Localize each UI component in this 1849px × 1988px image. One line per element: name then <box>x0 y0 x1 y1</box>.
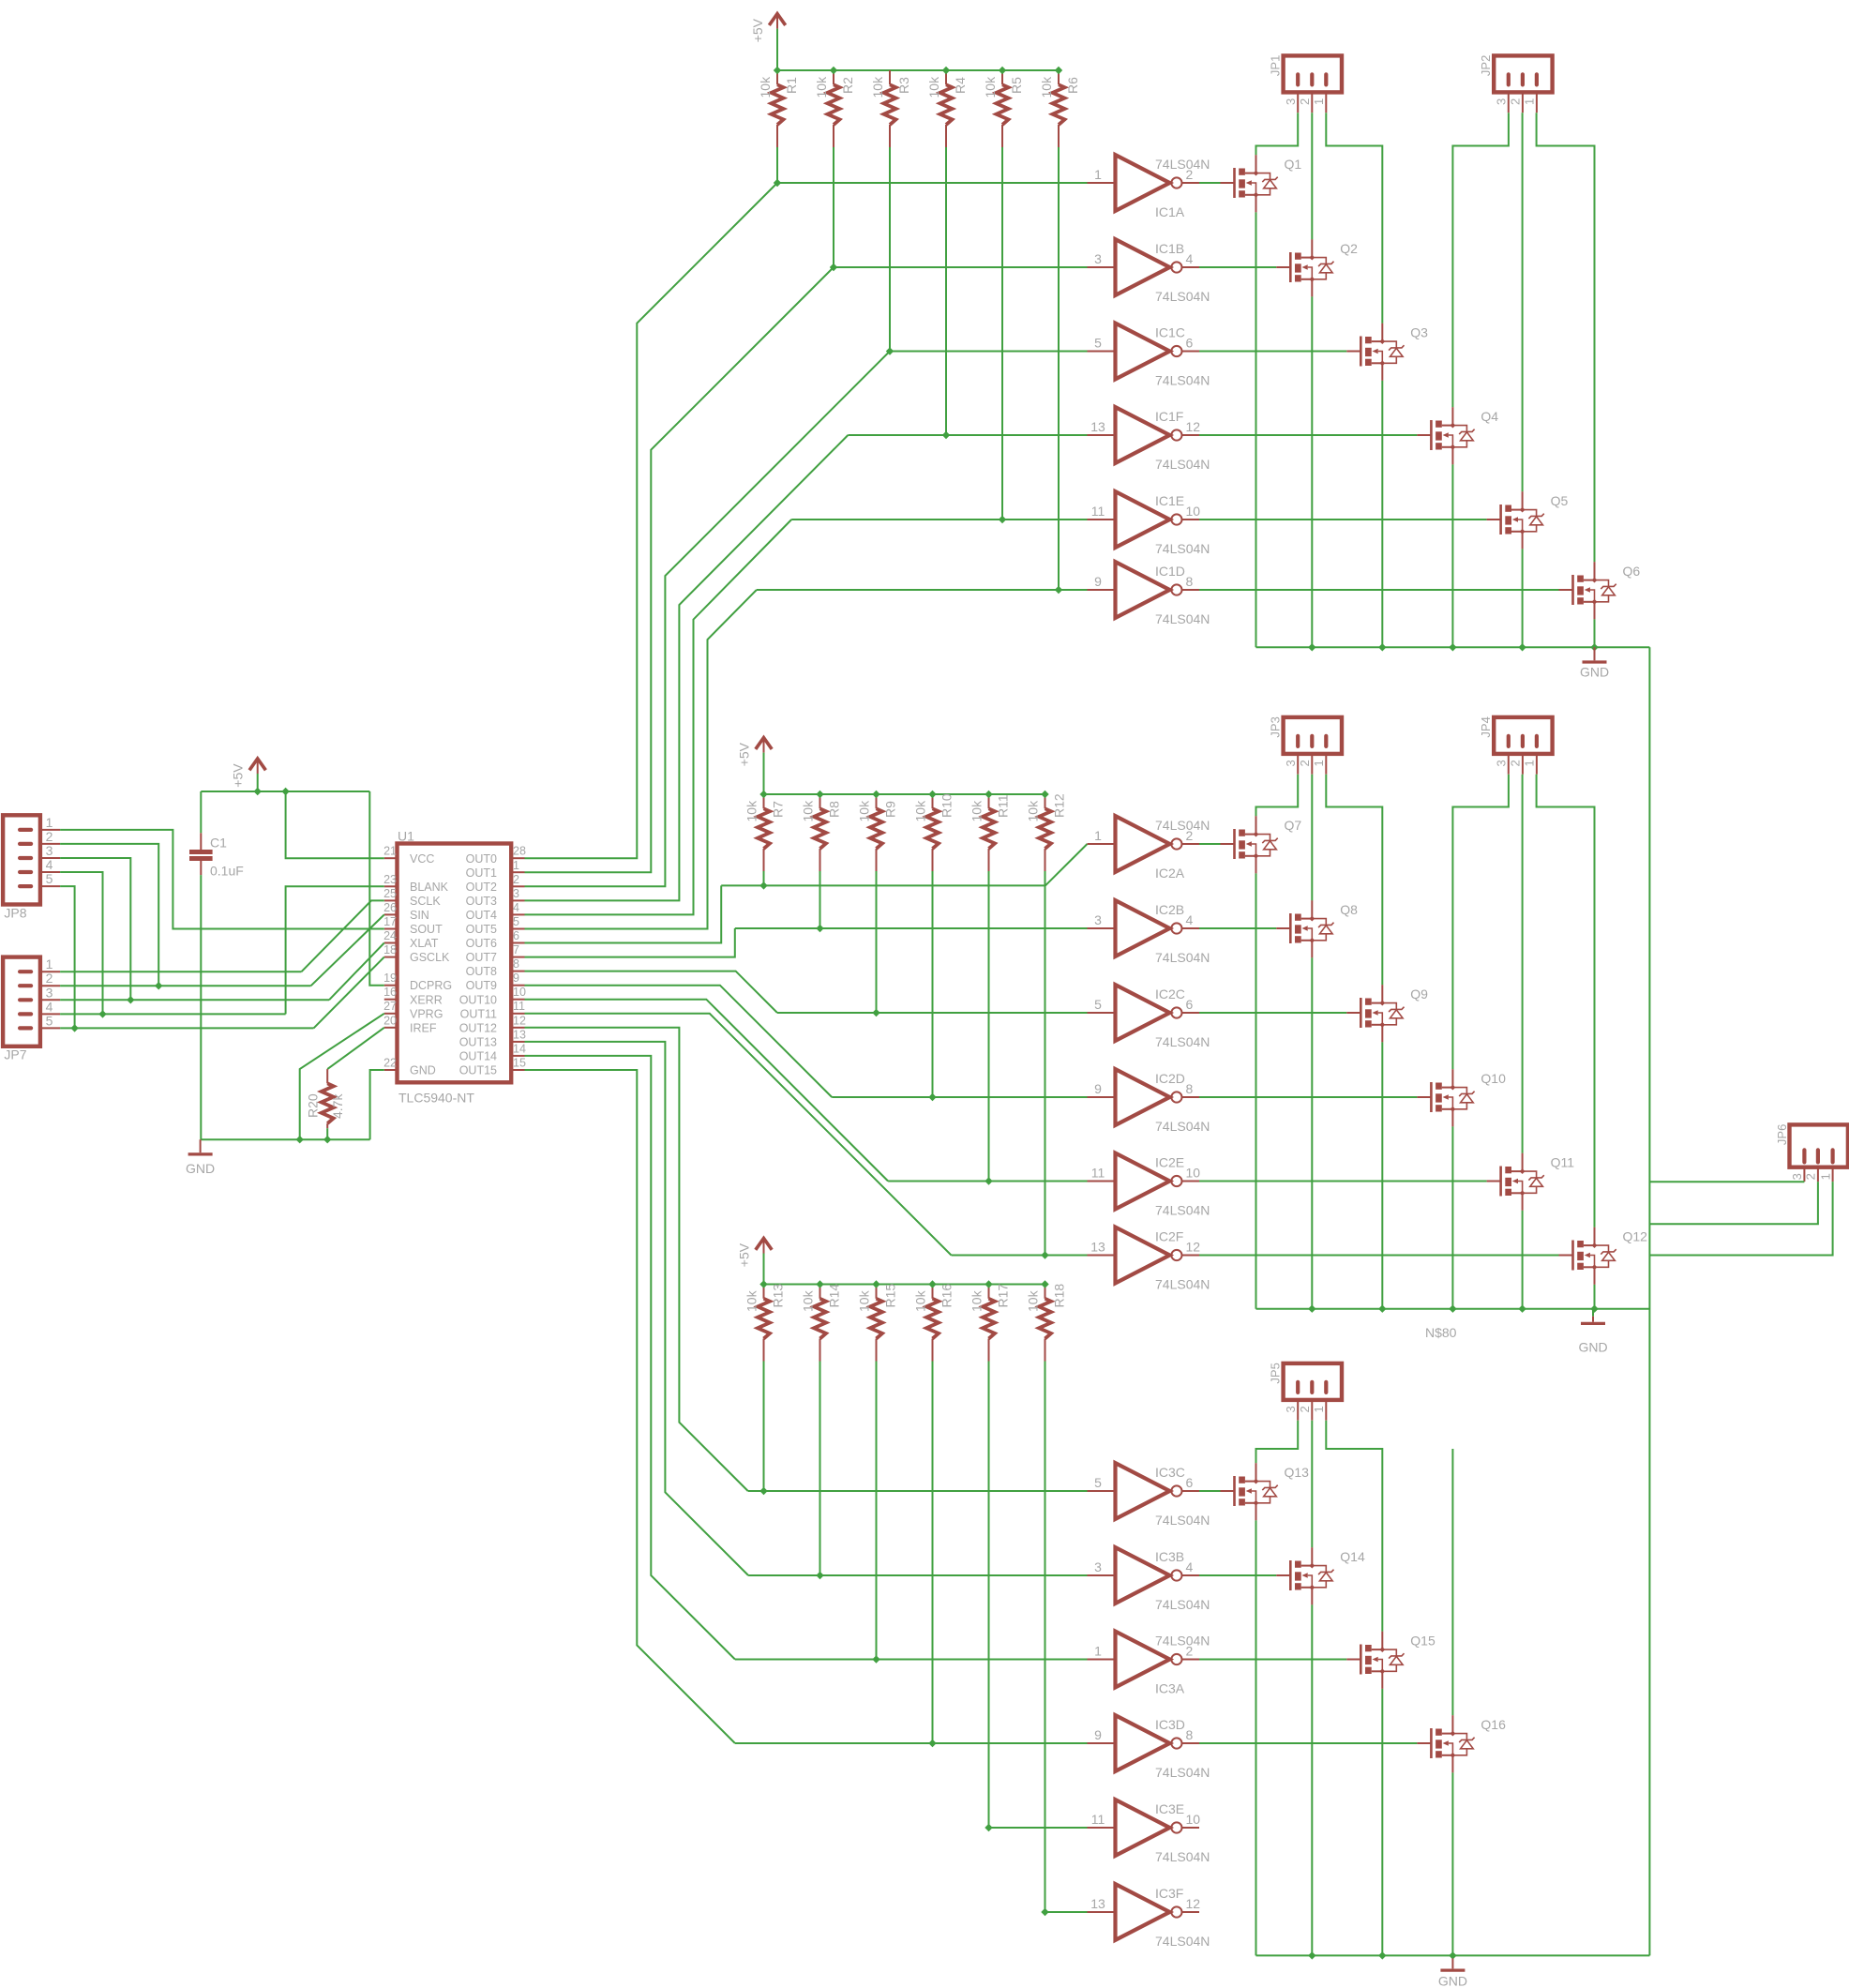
svg-text:Q10: Q10 <box>1481 1071 1506 1086</box>
wire R11 to inverter input row <box>988 871 990 1182</box>
svg-text:GND: GND <box>186 1161 215 1176</box>
wire +5V to DCPRG <box>369 791 384 986</box>
junction <box>1308 1951 1315 1959</box>
svg-text:74LS04N: 74LS04N <box>1155 1849 1210 1864</box>
svg-text:JP3: JP3 <box>1269 716 1283 737</box>
junction <box>759 881 767 889</box>
junction <box>816 925 823 932</box>
svg-text:6: 6 <box>1186 1475 1194 1490</box>
svg-text:3: 3 <box>1094 1559 1102 1574</box>
wire IC2B output to Q8 gate <box>1199 927 1276 929</box>
pin 19 DCPRG of U1 <box>384 985 398 986</box>
pin 9 OUT9 of U1 <box>511 985 524 986</box>
svg-text:74LS04N: 74LS04N <box>1155 1934 1210 1949</box>
wire OUT13 to IC3B <box>525 1042 749 1575</box>
svg-text:2: 2 <box>1298 760 1312 766</box>
wire IC1C output to Q3 gate <box>1199 351 1346 353</box>
wire JP6 pin 2 to GND rail <box>1649 1182 1818 1224</box>
svg-text:3: 3 <box>513 887 519 900</box>
wire XLAT diagonal <box>329 943 384 1001</box>
wire Q13 source to GND bus <box>1255 1520 1257 1955</box>
svg-text:74LS04N: 74LS04N <box>1155 1119 1210 1134</box>
svg-text:R11: R11 <box>996 794 1011 818</box>
wire JP8 pin 1 to SOUT <box>60 830 384 929</box>
svg-text:+5V: +5V <box>750 18 765 42</box>
svg-text:3: 3 <box>46 843 53 858</box>
junction <box>98 1010 106 1017</box>
svg-text:10k: 10k <box>870 76 885 98</box>
svg-text:10k: 10k <box>913 1289 928 1312</box>
svg-text:IC3B: IC3B <box>1155 1549 1184 1564</box>
svg-text:Q15: Q15 <box>1410 1634 1436 1649</box>
wire Q8 source to GND bus <box>1311 957 1313 1308</box>
wire to Q16 drain <box>1451 1449 1453 1715</box>
wire R10 to inverter input row <box>932 871 934 1097</box>
connector JP8 5-pin header <box>3 815 40 904</box>
connector JP5 3-pin header <box>1284 1363 1342 1400</box>
inverter IC2A 74LS04N <box>1088 843 1116 845</box>
pin 13 OUT13 of U1 <box>511 1041 524 1043</box>
svg-text:1: 1 <box>46 956 53 971</box>
svg-text:10: 10 <box>1186 1812 1201 1827</box>
svg-text:10k: 10k <box>744 800 759 822</box>
wire JP5 pin 2 to Q14 drain <box>1311 1421 1313 1547</box>
svg-text:7: 7 <box>513 943 519 956</box>
ground symbol GND <box>1594 647 1596 660</box>
wire IC3B input row <box>748 1574 1087 1576</box>
svg-text:IC1F: IC1F <box>1155 409 1183 424</box>
svg-text:OUT12: OUT12 <box>459 1021 497 1034</box>
wire IC3A output to Q15 gate <box>1199 1659 1346 1661</box>
svg-text:IC3E: IC3E <box>1155 1801 1184 1816</box>
wire JP2 pin 1 to Q6 drain <box>1537 113 1595 562</box>
transistor Q8 N-MOSFET <box>1276 927 1290 929</box>
wire JP7 pin 1 row (SCLK net) <box>60 971 301 972</box>
wire R2 to inverter input row <box>833 147 834 267</box>
svg-text:3: 3 <box>1790 1173 1804 1180</box>
svg-text:10k: 10k <box>1026 800 1041 822</box>
junction <box>1518 1305 1526 1313</box>
wire Q6 source to GND bus <box>1594 619 1596 647</box>
svg-text:OUT3: OUT3 <box>466 895 497 908</box>
svg-text:2: 2 <box>1804 1173 1818 1180</box>
svg-text:4.7k: 4.7k <box>330 1093 345 1119</box>
svg-text:3: 3 <box>1284 1406 1298 1412</box>
svg-text:JP4: JP4 <box>1479 716 1493 737</box>
+5V power symbol <box>769 14 785 25</box>
wire JP8 pin 5 to JP7 pin 5 row <box>60 886 75 1028</box>
transistor Q3 N-MOSFET <box>1346 351 1360 353</box>
wire OUT3 to IC1F <box>525 435 849 900</box>
wire IC3D input row <box>735 1742 1088 1744</box>
svg-text:5: 5 <box>1094 997 1102 1012</box>
junction <box>816 1572 823 1579</box>
resistor R2 10k <box>833 70 834 84</box>
junction <box>1449 1951 1456 1959</box>
pin 1 OUT1 of U1 <box>511 871 524 873</box>
svg-text:GND: GND <box>1578 1340 1607 1355</box>
wire R1 to inverter input row <box>776 147 778 183</box>
svg-text:3: 3 <box>1495 98 1509 105</box>
pin 6 OUT6 of U1 <box>511 942 524 944</box>
connector JP2 3-pin header <box>1494 55 1552 92</box>
svg-text:10k: 10k <box>970 800 985 822</box>
wire JP8 pin 3 to JP7 pin 3 row <box>60 858 130 1000</box>
junction <box>1308 643 1315 651</box>
svg-text:4: 4 <box>513 901 519 914</box>
ground symbol GND <box>1592 1309 1594 1317</box>
inverter IC3B 74LS04N <box>1088 1574 1116 1576</box>
junction <box>323 1136 331 1143</box>
svg-text:0.1uF: 0.1uF <box>210 864 244 879</box>
svg-text:2: 2 <box>46 829 53 844</box>
connector JP1 3-pin header <box>1284 55 1342 92</box>
wire IC2A input row with diagonal <box>721 844 1087 885</box>
junction <box>928 1739 936 1747</box>
svg-text:IC2B: IC2B <box>1155 902 1184 917</box>
svg-text:JP7: JP7 <box>4 1047 26 1062</box>
wire R6 to inverter input row <box>1058 147 1060 590</box>
svg-text:5: 5 <box>1094 1475 1102 1490</box>
wire IC1B output to Q2 gate <box>1199 266 1276 268</box>
svg-text:GND: GND <box>1580 664 1609 679</box>
pin 28 OUT0 of U1 <box>511 857 524 859</box>
wire IC1D output to Q6 gate <box>1199 589 1559 591</box>
wire JP7 pin 5 row (GSCLK net) <box>60 1027 313 1029</box>
junction <box>928 791 936 798</box>
resistor R10 10k <box>932 794 934 808</box>
resistor R15 10k <box>876 1285 878 1299</box>
svg-text:9: 9 <box>513 971 519 985</box>
inverter IC1C 74LS04N <box>1088 351 1116 353</box>
inverter IC2C 74LS04N <box>1088 1012 1116 1014</box>
svg-text:8: 8 <box>1186 1727 1194 1742</box>
wire Q5 source to GND bus <box>1522 549 1524 647</box>
svg-text:1: 1 <box>1094 167 1102 182</box>
wire IC2D input row <box>832 1096 1087 1098</box>
wire IC1A input row <box>777 182 1088 184</box>
junction <box>830 67 837 74</box>
wire IC1B input row <box>834 266 1088 268</box>
wire JP2 pin 2 to Q5 drain <box>1522 113 1524 491</box>
svg-text:1: 1 <box>513 859 519 872</box>
svg-text:OUT2: OUT2 <box>466 881 497 894</box>
svg-text:27: 27 <box>383 1000 397 1013</box>
svg-text:SIN: SIN <box>410 909 429 922</box>
+5V power symbol <box>756 1239 772 1250</box>
wire JP6 pin 1 to GND rail <box>1649 1182 1832 1255</box>
svg-text:11: 11 <box>1091 1166 1105 1181</box>
inverter IC3D 74LS04N <box>1088 1742 1116 1744</box>
svg-text:R7: R7 <box>771 801 786 818</box>
resistor R16 10k <box>932 1285 934 1299</box>
svg-text:IC2D: IC2D <box>1155 1071 1185 1086</box>
junction <box>1590 643 1598 651</box>
svg-text:IC1A: IC1A <box>1155 204 1185 219</box>
wire Q15 source to GND bus <box>1381 1689 1383 1955</box>
wire IC2E input row <box>888 1181 1087 1182</box>
wire bottom resistor bank +5V bus <box>764 1284 1045 1286</box>
pin 22 GND of U1 <box>384 1069 398 1071</box>
svg-text:10k: 10k <box>758 76 773 98</box>
pin 5 OUT5 of U1 <box>511 928 524 930</box>
transistor Q5 N-MOSFET <box>1487 519 1501 520</box>
wire IC3C input row <box>748 1490 1088 1492</box>
junction <box>759 1280 767 1288</box>
junction <box>759 791 767 798</box>
IC U1 TLC5940-NT body <box>398 844 512 1083</box>
junction <box>774 179 781 187</box>
svg-text:Q9: Q9 <box>1410 986 1428 1002</box>
wire IC2B input row <box>735 927 1088 929</box>
wire OUT15 to IC3D <box>525 1070 735 1743</box>
junction <box>999 67 1006 74</box>
wire Q14 source to GND bus <box>1311 1604 1313 1955</box>
junction <box>816 1280 823 1288</box>
wire Q10 source to GND bus <box>1451 1126 1453 1308</box>
pin 3 OUT3 of U1 <box>511 899 524 901</box>
svg-text:JP8: JP8 <box>4 905 26 920</box>
svg-text:OUT15: OUT15 <box>459 1064 497 1077</box>
svg-text:18: 18 <box>383 943 397 956</box>
svg-text:4: 4 <box>1186 912 1194 927</box>
svg-text:R2: R2 <box>840 77 855 94</box>
svg-text:10k: 10k <box>926 76 941 98</box>
svg-text:SOUT: SOUT <box>410 923 443 936</box>
svg-text:3: 3 <box>1495 760 1509 766</box>
junction <box>759 1487 767 1495</box>
wire JP3 pin 3 to Q7 drain <box>1256 775 1299 816</box>
svg-text:IC1D: IC1D <box>1155 564 1185 579</box>
wire IC1E input row <box>791 519 1087 520</box>
wire +5V to VCC <box>286 791 384 858</box>
junction <box>1041 1280 1048 1288</box>
junction <box>872 791 879 798</box>
wire C1 bottom lead to GND bus <box>200 875 202 1139</box>
wire SIN diagonal <box>311 914 384 986</box>
svg-text:10k: 10k <box>857 800 872 822</box>
svg-text:IC3F: IC3F <box>1155 1886 1183 1901</box>
wire JP7 pin 2 row (SIN net) <box>60 985 311 986</box>
svg-text:R3: R3 <box>896 77 911 94</box>
wire JP8 pin 2 to JP7 pin 2 row <box>60 844 158 986</box>
svg-text:10k: 10k <box>801 800 816 822</box>
svg-text:IREF: IREF <box>410 1021 437 1034</box>
wire OUT10 to IC2E <box>525 1000 889 1182</box>
wire IC2F input row <box>952 1255 1088 1257</box>
svg-text:Q13: Q13 <box>1285 1465 1310 1480</box>
svg-text:10k: 10k <box>1039 76 1054 98</box>
wire JP1 pin 3 to Q1 drain <box>1256 113 1299 155</box>
junction <box>872 1009 879 1017</box>
svg-text:20: 20 <box>383 1014 397 1027</box>
transistor Q14 N-MOSFET <box>1276 1574 1290 1576</box>
transistor Q4 N-MOSFET <box>1417 434 1431 436</box>
pin 8 OUT8 of U1 <box>511 971 524 972</box>
svg-text:5: 5 <box>46 1013 53 1028</box>
resistor R6 10k <box>1058 70 1060 84</box>
pin 4 OUT4 of U1 <box>511 913 524 915</box>
inverter IC3C 74LS04N <box>1088 1490 1116 1492</box>
junction <box>872 1280 879 1288</box>
svg-text:R8: R8 <box>827 801 842 818</box>
svg-text:12: 12 <box>1186 419 1201 434</box>
pin 25 SCLK of U1 <box>384 899 398 901</box>
resistor R7 10k <box>763 794 765 808</box>
inverter IC3F 74LS04N <box>1088 1911 1116 1913</box>
wire Q12 source to GND bus <box>1594 1285 1596 1309</box>
svg-text:10k: 10k <box>801 1289 816 1312</box>
svg-text:R17: R17 <box>996 1284 1011 1308</box>
resistor R5 10k <box>1001 70 1003 84</box>
wire Q7 source to GND bus <box>1255 873 1257 1308</box>
wire IC1D input row <box>757 589 1088 591</box>
wire R3 to inverter input row <box>889 147 891 352</box>
+5V power symbol <box>249 759 265 770</box>
svg-text:GND: GND <box>410 1064 436 1077</box>
junction <box>1308 1305 1315 1313</box>
svg-text:Q12: Q12 <box>1623 1229 1648 1244</box>
wire R9 to inverter input row <box>876 871 878 1013</box>
wire IC1F input row <box>848 434 1087 436</box>
inverter IC3E 74LS04N <box>1088 1827 1116 1829</box>
resistor R4 10k <box>945 70 947 84</box>
svg-text:IC3D: IC3D <box>1155 1717 1185 1732</box>
svg-text:OUT13: OUT13 <box>459 1036 497 1049</box>
wire Q3 source to GND bus <box>1381 381 1383 647</box>
svg-text:1: 1 <box>1312 760 1326 766</box>
wire OUT1 to IC1B <box>525 267 834 872</box>
junction <box>281 788 289 795</box>
wire JP1 pin 1 to Q3 drain <box>1326 113 1382 323</box>
svg-text:74LS04N: 74LS04N <box>1155 1513 1210 1528</box>
wire OUT9 to IC2D <box>525 986 833 1097</box>
wire JP4 pin 2 to Q11 drain <box>1522 775 1524 1153</box>
svg-text:74LS04N: 74LS04N <box>1155 950 1210 965</box>
wire R7 to inverter input row <box>763 871 765 885</box>
ground symbol GND <box>200 1139 202 1152</box>
svg-text:74LS04N: 74LS04N <box>1155 1034 1210 1049</box>
svg-text:9: 9 <box>1094 574 1102 589</box>
svg-text:4: 4 <box>46 999 53 1014</box>
wire R20 to GND bus <box>326 1128 328 1139</box>
svg-text:GSCLK: GSCLK <box>410 951 450 964</box>
inverter IC2B 74LS04N <box>1088 927 1116 929</box>
transistor Q11 N-MOSFET <box>1487 1181 1501 1182</box>
wire IC1A output to Q1 gate <box>1199 182 1221 184</box>
svg-text:R12: R12 <box>1052 793 1067 818</box>
svg-text:OUT11: OUT11 <box>460 1007 497 1020</box>
svg-text:5: 5 <box>46 871 53 886</box>
pin 21 VCC of U1 <box>384 857 398 859</box>
wire IC2C output to Q9 gate <box>1199 1012 1346 1014</box>
svg-text:OUT8: OUT8 <box>466 965 497 978</box>
wire JP8 pin 4 to JP7 pin 4 row <box>60 872 102 1014</box>
svg-text:74LS04N: 74LS04N <box>1155 157 1210 172</box>
svg-text:13: 13 <box>513 1028 526 1041</box>
svg-text:10: 10 <box>1186 504 1201 519</box>
wire IC1E output to Q5 gate <box>1199 519 1487 520</box>
svg-text:R20: R20 <box>306 1093 321 1118</box>
wire middle resistor bank +5V bus <box>764 793 1045 795</box>
junction <box>985 1177 992 1184</box>
wire JP7 pin 4 row (BLANK net) <box>60 1013 286 1015</box>
svg-text:OUT14: OUT14 <box>459 1050 497 1063</box>
inverter IC2D 74LS04N <box>1088 1096 1116 1098</box>
resistor R13 10k <box>763 1285 765 1299</box>
wire Q16 source to GND bus <box>1451 1772 1453 1955</box>
wire R13 to inverter input row <box>763 1362 765 1492</box>
svg-text:74LS04N: 74LS04N <box>1155 289 1210 304</box>
svg-text:74LS04N: 74LS04N <box>1155 611 1210 626</box>
wire JP3 pin 1 to Q9 drain <box>1326 775 1382 985</box>
svg-text:R13: R13 <box>771 1284 786 1308</box>
svg-text:14: 14 <box>513 1042 526 1055</box>
transistor Q6 N-MOSFET <box>1559 589 1573 591</box>
svg-text:IC1B: IC1B <box>1155 241 1184 256</box>
transistor Q2 N-MOSFET <box>1276 266 1290 268</box>
junction <box>296 1136 304 1143</box>
svg-text:11: 11 <box>1091 1812 1105 1827</box>
svg-text:10: 10 <box>513 986 526 999</box>
resistor R9 10k <box>876 794 878 808</box>
junction <box>872 1655 879 1663</box>
wire +5V stem <box>776 29 778 70</box>
svg-text:10: 10 <box>1186 1166 1201 1181</box>
wire R14 to inverter input row <box>819 1362 821 1576</box>
svg-text:5: 5 <box>1094 336 1102 351</box>
resistor R20 4.7k <box>326 1069 328 1083</box>
pin 12 OUT12 of U1 <box>511 1027 524 1029</box>
svg-text:1: 1 <box>1312 98 1326 105</box>
svg-text:JP5: JP5 <box>1269 1363 1283 1383</box>
svg-text:IC2C: IC2C <box>1155 986 1185 1002</box>
pin 26 SIN of U1 <box>384 913 398 915</box>
wire Q11 source to GND bus <box>1522 1211 1524 1309</box>
junction <box>942 431 950 439</box>
svg-text:R6: R6 <box>1065 77 1080 94</box>
svg-text:1: 1 <box>1094 828 1102 843</box>
pin 14 OUT14 of U1 <box>511 1055 524 1057</box>
pin 2 OUT2 of U1 <box>511 885 524 887</box>
svg-text:OUT10: OUT10 <box>459 993 497 1006</box>
pin 23 BLANK of U1 <box>384 885 398 887</box>
svg-text:24: 24 <box>383 929 397 942</box>
svg-text:IC2F: IC2F <box>1155 1229 1183 1244</box>
wire JP6 pin 3 to GND rail <box>1649 1181 1804 1182</box>
inverter IC3A 74LS04N <box>1088 1659 1116 1661</box>
svg-text:Q16: Q16 <box>1481 1717 1506 1732</box>
junction <box>985 1280 992 1288</box>
transistor Q10 N-MOSFET <box>1417 1096 1431 1098</box>
wire R5 to inverter input row <box>1001 147 1003 520</box>
wire IC3B output to Q14 gate <box>1199 1574 1276 1576</box>
junction <box>1518 643 1526 651</box>
wire JP4 pin 1 to Q12 drain <box>1537 775 1595 1227</box>
pin 24 XLAT of U1 <box>384 942 398 944</box>
wire JP2 pin 3 to Q4 drain <box>1452 113 1509 407</box>
wire OUT4 to IC1E <box>525 520 792 914</box>
svg-text:22: 22 <box>383 1057 397 1070</box>
svg-text:IC2A: IC2A <box>1155 866 1185 881</box>
wire +5V bus near C1 <box>201 791 369 792</box>
svg-text:6: 6 <box>513 929 519 942</box>
resistor R12 10k <box>1045 794 1046 808</box>
svg-text:12: 12 <box>1186 1240 1201 1255</box>
svg-text:OUT4: OUT4 <box>466 909 497 922</box>
svg-text:74LS04N: 74LS04N <box>1155 1765 1210 1780</box>
svg-text:11: 11 <box>1091 504 1105 519</box>
